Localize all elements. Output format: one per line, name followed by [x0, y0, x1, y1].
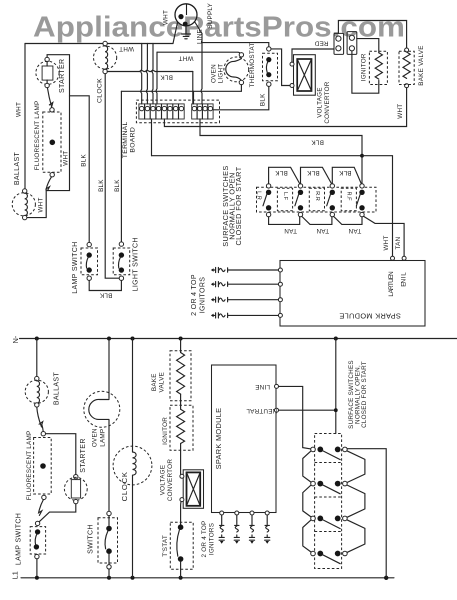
wire lamp return node: [27, 189, 46, 218]
wire WHT line to oven light: [157, 52, 241, 54]
lamp switch S3b dashed box: [30, 527, 45, 554]
surface switches dashed box bottom: [315, 434, 342, 569]
ignitor R1 resistor: [375, 53, 382, 79]
junction neutral: [334, 408, 338, 412]
thermostat S1 top terminal: [267, 47, 271, 51]
wire clock bottom down (middle switch wire): [105, 74, 119, 279]
surface switch bottom row 3: [311, 516, 348, 529]
svg-text:CLOSED FOR START: CLOSED FOR START: [361, 361, 368, 428]
power plug P1: [175, 4, 197, 26]
wire J2 lower to ignitor bottom: [352, 51, 379, 93]
wire oven lamp to switch: [108, 420, 110, 511]
svg-text:WHT: WHT: [162, 10, 169, 25]
module NEUTRAL terminal: [275, 408, 279, 412]
junction L1 lamp switch: [35, 576, 39, 580]
svg-text:LIGHT SWITCH: LIGHT SWITCH: [133, 237, 140, 291]
wire junction to WHT riser: [362, 156, 393, 224]
svg-text:LAMP: LAMP: [99, 429, 106, 447]
spark gap lead 3: [249, 515, 254, 544]
svg-text:LAMP SWITCH: LAMP SWITCH: [15, 513, 22, 565]
starter S2b body: [71, 480, 80, 498]
tstat dashed box: [170, 522, 193, 569]
spark module U1 box: [280, 261, 425, 327]
svg-text:SPARK MODULE: SPARK MODULE: [214, 408, 223, 470]
wire lamp switch to light switch BLK: [89, 280, 121, 290]
lamp switch S3b blade: [35, 534, 37, 545]
lamp switch S3 top terminal: [87, 242, 91, 246]
surface switch bottom row 4: [311, 551, 348, 564]
terminal board right group: [192, 104, 213, 119]
wire convertor to tstat: [180, 502, 182, 525]
fluorescent lamp cathode dot: [50, 140, 56, 146]
wire LINE to switch chain: [279, 386, 311, 449]
svg-text:BLK: BLK: [275, 169, 288, 176]
light switch S4 blade: [119, 257, 121, 268]
thermostat S1 blade: [266, 62, 267, 73]
junction N clock: [131, 337, 135, 341]
svg-text:L.R: L.R: [256, 191, 262, 200]
wire bake to ignitor: [180, 394, 182, 409]
junction N bake valve: [179, 337, 183, 341]
voltage convertor terminal upper: [290, 62, 294, 66]
starter S2b top terminal: [74, 475, 78, 479]
spark module U1b box: [212, 365, 277, 513]
wire top border (WHT rail): [25, 43, 173, 45]
burner label box RF: [341, 188, 356, 211]
spark gap lead 4: [265, 515, 270, 544]
wire lamp switch to L1: [36, 559, 38, 578]
wire TAN chain 2-3: [302, 216, 332, 224]
wire BLK chain 1-2: [269, 167, 300, 183]
wire BLK chain 2-3: [301, 167, 332, 183]
wire TAN chain 4-module: [364, 216, 404, 258]
burner label box LF: [277, 188, 292, 211]
wire LINE drop to terminal board: [200, 34, 203, 104]
wire bake valve drop: [180, 339, 182, 353]
lamp switch S3 blade: [86, 257, 88, 268]
oven light terminal top: [239, 53, 243, 57]
surface switch bottom row 1: [311, 447, 348, 460]
wire thermostat feed from LINE: [202, 43, 269, 47]
svg-text:OVEN: OVEN: [91, 428, 98, 447]
junction L1 switches: [384, 576, 388, 580]
wire ballast to lamp blade: [37, 407, 43, 431]
oven switch S5 dashed box: [98, 518, 118, 563]
svg-text:TAN: TAN: [284, 227, 297, 234]
svg-text:BALLAST: BALLAST: [54, 372, 61, 406]
svg-text:LAMP SWITCH: LAMP SWITCH: [72, 241, 79, 293]
fluorescent lamp bottom terminal: [42, 495, 46, 499]
svg-text:2 OR 4 TOP: 2 OR 4 TOP: [191, 274, 198, 316]
svg-text:CONVERTOR: CONVERTOR: [167, 459, 174, 501]
bake valve L1 coil resistor: [403, 52, 410, 78]
svg-text:WHT: WHT: [63, 151, 70, 166]
oven switch S5 dots: [106, 526, 112, 532]
wire thermostat top to convertor: [271, 49, 290, 86]
svg-text:BAKE: BAKE: [151, 373, 158, 391]
clock K1 terminals: [103, 41, 107, 45]
wire neutral drop to switches: [335, 339, 337, 434]
wire right group cell1 riser: [193, 91, 195, 104]
starter leads into body: [46, 62, 48, 84]
svg-text:IGNITORS: IGNITORS: [200, 277, 207, 314]
svg-text:THERMOSTAT: THERMOSTAT: [249, 42, 256, 87]
svg-text:BLK: BLK: [81, 154, 88, 167]
oven light lamp DS2 filament: [226, 59, 242, 80]
terminal board left group: [139, 104, 184, 119]
ballast T1 top terminal: [23, 189, 27, 193]
module LINE terminal: [275, 384, 279, 388]
module terminal WHT: [391, 256, 395, 260]
wire right chain row 2-3: [347, 485, 365, 517]
spark gap wire 2: [211, 282, 279, 287]
junction N neutral drop: [334, 337, 338, 341]
wire tstat to L1: [180, 562, 182, 578]
surface switch SW4: [356, 184, 364, 217]
svg-text:IGNITOR: IGNITOR: [361, 53, 368, 81]
wire cell2 riser: [146, 44, 149, 104]
wire oven lamp drop: [108, 339, 110, 399]
wire oven light bottom drop: [240, 85, 242, 92]
light switch S4 dots: [119, 252, 124, 257]
starter S2b dashed circle: [64, 477, 87, 500]
svg-text:OVEN: OVEN: [210, 64, 217, 83]
svg-text:TERMINAL: TERMINAL: [122, 121, 129, 158]
wire right chain row 1-2: [347, 451, 365, 483]
wire oven-light return horizontal: [121, 90, 241, 92]
svg-text:BLK: BLK: [306, 169, 319, 176]
bake valve dashed box: [399, 51, 414, 84]
wire light switch top drop: [120, 91, 122, 242]
oven switch S5 blade: [105, 531, 108, 549]
ballast T1b top terminal: [35, 376, 39, 380]
svg-text:CONVERTOR: CONVERTOR: [324, 81, 331, 123]
ballast T1 dashed circle: [12, 193, 35, 216]
fluorescent lamp dashed box bottom: [34, 438, 52, 495]
wire left chain row 3-4: [303, 520, 311, 552]
ground symbol: [182, 26, 191, 39]
svg-text:LINE: LINE: [197, 29, 204, 44]
svg-text:LINE: LINE: [255, 383, 270, 390]
clock K1 coil: [105, 46, 108, 69]
junction L1 oven switch: [107, 576, 111, 580]
svg-text:T'STAT: T'STAT: [162, 535, 169, 557]
bake valve dashed box bottom: [170, 351, 191, 401]
module terminal TAN: [402, 256, 406, 260]
module input terminals: [278, 268, 282, 272]
voltage convertor U2 outer box: [294, 55, 316, 95]
connector block J1: [334, 33, 344, 54]
thermostat dashed box: [263, 53, 278, 81]
thermostat S1 bottom terminal: [267, 82, 271, 86]
wire plug right lead (LINE): [195, 22, 203, 34]
wire thermostat bottom drop BLK: [213, 86, 269, 109]
surface switch SW2: [295, 184, 303, 217]
wire left chain row 1-2: [303, 451, 311, 482]
svg-text:CLOSED FOR START: CLOSED FOR START: [234, 166, 243, 245]
lamp switch S3 bottom terminal: [87, 276, 91, 280]
svg-text:WHT: WHT: [119, 45, 134, 52]
module bottom terminals: [220, 511, 224, 515]
wire bus B drop from cell4: [151, 119, 153, 156]
wire starter bottom to lamp switch: [39, 504, 75, 522]
lamp switch S3b bottom terminal: [35, 554, 39, 558]
wire clock to L1: [132, 475, 134, 577]
spark gap wire 3: [211, 297, 279, 302]
ignitor dashed box bottom: [170, 405, 193, 450]
svg-text:SWITCH: SWITCH: [87, 524, 94, 554]
wire TAN chain 1-2: [269, 217, 300, 225]
light switch S4 top terminal: [119, 242, 123, 246]
svg-text:WHT: WHT: [37, 197, 44, 212]
light switch dashed box: [113, 248, 130, 275]
svg-text:VOLTAGE: VOLTAGE: [317, 87, 324, 118]
convertor terminal top: [180, 474, 184, 478]
oven lamp DS2b filament: [89, 399, 109, 419]
junction N oven lamp: [107, 337, 111, 341]
fluorescent lamp bottom terminal: [50, 173, 54, 177]
ballast T1b dashed circle: [25, 380, 48, 403]
lamp switch dashed box: [81, 248, 98, 275]
ignitor R1b resistor: [177, 409, 185, 443]
burner label box RR: [309, 188, 324, 211]
svg-text:WHT: WHT: [178, 55, 193, 62]
wire branch down to lamp return: [46, 96, 69, 191]
ballast T1 bottom terminal: [23, 215, 27, 219]
junction N ballast: [35, 337, 39, 341]
svg-text:SUPPLY: SUPPLY: [207, 2, 214, 28]
svg-text:VOLTAGE: VOLTAGE: [160, 465, 167, 496]
wire cell1 riser: [140, 44, 143, 104]
wire WHT riser to module: [392, 223, 394, 258]
wire TAN chain 3-4: [334, 216, 362, 224]
voltage convertor terminal lower: [290, 84, 294, 88]
wire bus B BLK lower: [152, 155, 363, 157]
wire line rail L1: [21, 577, 394, 579]
svg-text:STARTER: STARTER: [59, 59, 66, 93]
ignitor dashed box: [369, 51, 387, 84]
svg-text:RED: RED: [314, 40, 328, 47]
svg-text:TAN: TAN: [395, 236, 402, 249]
spark gap wire 4: [211, 313, 279, 318]
svg-text:N-: N-: [11, 335, 20, 343]
wire ballast drop: [36, 339, 38, 377]
junction L1 clock: [131, 576, 135, 580]
starter S2 body: [42, 66, 53, 80]
wire oven switch to L1: [108, 554, 110, 578]
svg-text:L: L: [388, 293, 395, 297]
junction L1 tstat: [179, 576, 183, 580]
svg-text:CLOCK: CLOCK: [97, 78, 104, 103]
svg-text:TAN: TAN: [348, 227, 361, 234]
svg-text:SPARK MODULE: SPARK MODULE: [339, 311, 401, 320]
voltage convertor U2b inner box: [187, 472, 201, 505]
svg-text:IGNITORS: IGNITORS: [208, 523, 215, 555]
surface switches dashed box: [257, 187, 377, 212]
bake valve bottom terminal: [405, 84, 409, 88]
starter S2b bottom terminal: [74, 499, 78, 503]
starter S2 bottom terminal: [45, 83, 49, 87]
tstat dots: [178, 524, 184, 530]
wire left border: [24, 44, 26, 189]
terminal board TB1 dashed box: [136, 100, 219, 123]
clock K1b coil: [133, 452, 137, 475]
oven switch S5 bottom terminal: [107, 565, 111, 569]
svg-text:NEUTRAL: NEUTRAL: [246, 407, 277, 414]
starter blade to lamp top: [47, 88, 52, 107]
svg-text:STARTER: STARTER: [80, 438, 87, 472]
svg-text:BAKE VALVE: BAKE VALVE: [418, 45, 425, 85]
svg-text:FLUORESCENT LAMP: FLUORESCENT LAMP: [26, 431, 33, 501]
lamp bottom blade: [46, 177, 51, 191]
wire BLK drop at x193: [192, 72, 194, 104]
svg-text:BALLAST: BALLAST: [14, 152, 21, 186]
voltage convertor U2 inner box with X: [297, 59, 311, 91]
convertor terminal bottom: [180, 498, 184, 502]
svg-text:R.R: R.R: [314, 191, 320, 201]
wire right chain row 3-4: [347, 520, 365, 553]
svg-text:WHT: WHT: [383, 235, 390, 250]
surface switch SW3: [327, 184, 335, 217]
wire supply top line: [338, 21, 406, 48]
wire cell3 riser: [151, 44, 154, 104]
wire plug left lead: [173, 23, 178, 44]
svg-text:BLK: BLK: [338, 169, 351, 176]
svg-text:FLUORESCENT LAMP: FLUORESCENT LAMP: [34, 101, 41, 171]
svg-text:TAN: TAN: [316, 227, 329, 234]
fluorescent lamp top terminal: [50, 108, 54, 112]
oven switch S5 top terminal: [107, 511, 111, 515]
wire clock bottom to BLK line: [107, 70, 193, 71]
thermostat S1 contact dots: [266, 57, 271, 62]
wire BLK chain 3-4: [332, 167, 361, 183]
wire bake valve bottom WHT: [164, 88, 406, 127]
svg-text:I: I: [400, 276, 407, 278]
svg-text:LIGHT: LIGHT: [218, 64, 225, 84]
wire starter branch: [46, 434, 76, 475]
wire left chain row 2-3: [303, 485, 311, 517]
ballast T1 coil: [25, 193, 28, 215]
spark gap wire 1: [211, 267, 279, 272]
surface switch bottom row 2: [311, 481, 348, 494]
spark gap lead 1: [219, 515, 224, 544]
fluorescent lamp top terminal bottom diag: [41, 432, 45, 436]
svg-text:E: E: [400, 282, 407, 286]
light switch S4 bottom terminal: [119, 276, 123, 280]
terminal circles right group: [192, 106, 212, 110]
bake valve L1b resistor: [177, 353, 185, 395]
svg-text:BLK: BLK: [311, 139, 324, 146]
starter S2 top terminal: [45, 57, 49, 61]
svg-text:BLK: BLK: [114, 179, 121, 192]
wire row1 right to L1 rail: [347, 449, 386, 578]
svg-text:BLK: BLK: [98, 179, 105, 192]
lamp switch S3 dots: [87, 252, 92, 257]
terminal circles left group: [140, 106, 184, 110]
svg-text:BOARD: BOARD: [130, 127, 137, 153]
svg-text:R.F: R.F: [346, 191, 352, 201]
wire neutral rail N: [20, 338, 457, 340]
lamp switch S3b dots: [35, 529, 40, 534]
wire bus A BLK upper: [200, 119, 362, 184]
fluorescent lamp DS1 dashed box: [43, 112, 61, 172]
ballast T1b bottom terminal: [35, 403, 39, 407]
svg-text:L: L: [400, 272, 407, 276]
wire NEUTRAL horizontal: [279, 409, 336, 411]
junction bus: [360, 154, 364, 158]
spark gap lead 2: [234, 515, 239, 544]
surface switch SW1: [263, 184, 271, 217]
bake valve L1 top terminal: [405, 48, 409, 52]
wire J2 to ignitor: [357, 39, 379, 53]
lamp switch S3b top terminal: [35, 521, 39, 525]
lamp bottom blade to switch: [39, 500, 44, 516]
oven lamp DS2b dashed circle: [84, 391, 120, 427]
fluorescent lamp cathode dot bottom: [40, 463, 46, 469]
connector block J2: [347, 32, 357, 55]
clock K1 dashed circle: [94, 46, 117, 69]
svg-text:BLK: BLK: [260, 93, 267, 106]
svg-text:VALVE: VALVE: [159, 372, 166, 393]
oven light terminal bottom: [239, 80, 243, 84]
tstat blade: [177, 530, 180, 556]
svg-text:CLOCK: CLOCK: [120, 471, 129, 501]
wire starter loop: [47, 55, 89, 243]
svg-text:BLK: BLK: [160, 74, 173, 81]
svg-text:2 OR 4 TOP: 2 OR 4 TOP: [201, 521, 208, 558]
svg-text:IGNITOR: IGNITOR: [162, 417, 169, 445]
starter S2 dashed circle: [36, 61, 59, 84]
clock K1b dashed circle: [113, 446, 152, 485]
svg-text:WHT: WHT: [16, 102, 23, 117]
svg-text:BLK: BLK: [99, 292, 112, 299]
voltage convertor U2b outer box: [183, 470, 203, 509]
wire WHT drop to terminal cell4: [155, 52, 158, 104]
wire ignitor to convertor: [180, 444, 182, 475]
svg-text:L1: L1: [11, 571, 20, 579]
ballast T1b coil: [37, 381, 40, 403]
wire oven switch upper link: [108, 516, 110, 526]
svg-text:L.F: L.F: [282, 192, 288, 201]
wire clock drop: [132, 339, 134, 453]
oven light lamp DS2 dashed circle: [224, 57, 249, 82]
wire convertor upper to RED connector: [292, 49, 334, 62]
svg-text:WHT: WHT: [397, 104, 404, 119]
svg-text:A: A: [388, 288, 395, 293]
